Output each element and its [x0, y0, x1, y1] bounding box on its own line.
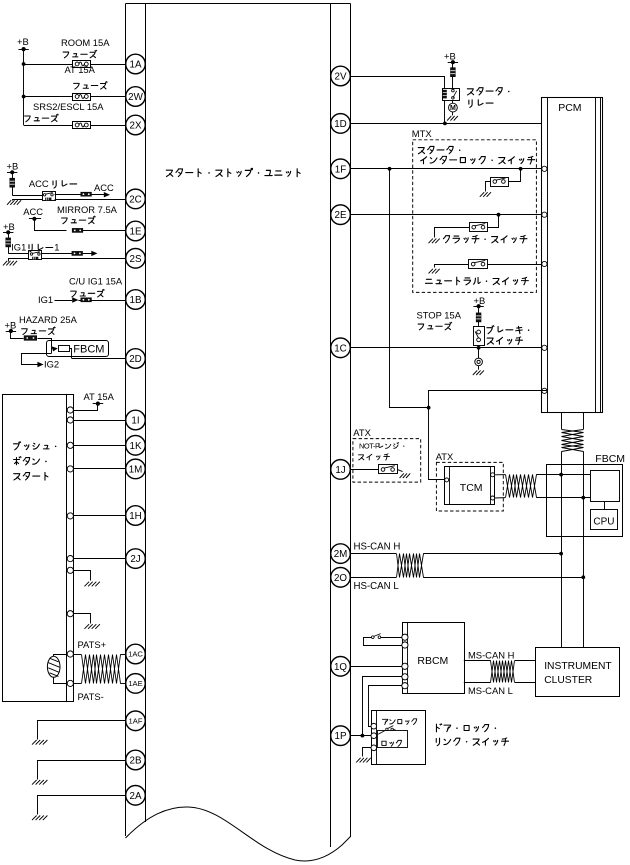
svg-text:SRS2/ESCL 15A: SRS2/ESCL 15A — [33, 101, 104, 112]
svg-text:1M: 1M — [129, 464, 143, 475]
terminal RBCM t1 — [402, 634, 408, 640]
pin 1I — [126, 410, 146, 430]
wire junction to clutch switch — [488, 215, 499, 228]
svg-text:HS-CAN H: HS-CAN H — [354, 541, 401, 552]
terminal PBS t7 — [67, 567, 73, 573]
terminal PBS t6 — [67, 556, 73, 562]
power +B node (ACC relay) — [7, 161, 19, 175]
svg-text:1AC: 1AC — [128, 650, 143, 659]
fuse SRS2/ESCL 15A — [25, 101, 105, 129]
pin PCM neutral — [542, 261, 547, 266]
power +B node (hazard) — [5, 314, 78, 335]
pin 1M — [126, 459, 146, 479]
coil (FBCM relay) — [59, 346, 70, 352]
wire 1F to PCM — [351, 167, 542, 171]
group MTX (dashed) — [412, 128, 537, 292]
wire +B link to relay — [12, 195, 42, 197]
fusible link (starter) — [451, 62, 456, 88]
svg-text:STOP 15A: STOP 15A — [417, 309, 462, 320]
ground (IG1 relay) — [3, 261, 17, 266]
pin 1F — [331, 159, 351, 179]
fuse STOP 15A (link) — [476, 306, 481, 326]
lamp stop (to stop lamps) — [475, 348, 483, 370]
module CPU box — [591, 510, 618, 530]
motor M (starter) — [449, 100, 458, 115]
module FBCM (driver) — [47, 341, 109, 357]
svg-text:1K: 1K — [130, 441, 142, 452]
wire PBS to 1H — [74, 515, 126, 517]
label starter relay — [467, 88, 509, 108]
wire +B to fuse SRS2 to 2X — [24, 125, 126, 127]
svg-text:IG1: IG1 — [38, 294, 53, 305]
svg-text:1Q: 1Q — [334, 662, 347, 673]
relay IG1-1 (K2) — [11, 241, 59, 259]
ground (door switch) — [356, 758, 371, 763]
relay starter (box) — [443, 89, 460, 101]
svg-text:1B: 1B — [130, 295, 142, 306]
wire 1C to PCM — [351, 346, 542, 350]
pin 2E — [331, 205, 351, 225]
wire 2M HS-CAN H — [351, 541, 563, 555]
terminal RBCM t4 — [402, 674, 408, 680]
fuse MIRROR 7.5A — [57, 204, 118, 233]
svg-text:+B: +B — [474, 295, 486, 306]
pin 1B — [126, 290, 146, 310]
power +B node (starter relay) — [444, 51, 458, 65]
power AT 15A node — [84, 391, 115, 406]
svg-text:1J: 1J — [335, 465, 345, 476]
terminal PBS t4 — [67, 466, 73, 472]
switch brake — [474, 327, 485, 346]
wire door t3 to ground — [363, 748, 372, 757]
pin 1K — [126, 436, 146, 456]
wire twisted pair PATS to 1AC/1AE — [74, 655, 126, 684]
terminal door t1 — [371, 723, 377, 729]
wire neutral switch to ground — [435, 265, 469, 268]
label neutral switch — [425, 277, 528, 285]
svg-text:2C: 2C — [129, 194, 142, 205]
wire transceiver to CPU — [604, 501, 606, 509]
ground (1AF) — [32, 740, 47, 745]
fuse AT 15A — [65, 64, 108, 101]
wire HS-CAN vertical pair PCM to cluster — [562, 413, 584, 648]
start-stop unit U1 box — [126, 4, 351, 862]
wire PBS to 1K — [74, 445, 126, 447]
pin PCM TCM-line — [542, 388, 547, 393]
pin 1AE — [126, 674, 146, 694]
svg-text:2A: 2A — [130, 791, 142, 802]
contact box lock — [378, 731, 408, 748]
svg-text:2X: 2X — [130, 121, 142, 132]
group ATX NOT-P (dashed) — [353, 427, 421, 482]
label door lock link switch — [436, 724, 508, 746]
terminal door t2 — [371, 733, 377, 739]
wire IG1 relay coil to ground — [9, 259, 29, 262]
terminal RBCM t2 — [402, 642, 408, 648]
ground (2A) — [32, 816, 47, 821]
group ATX TCM (dashed) — [436, 451, 504, 511]
FBCM transceiver box — [591, 471, 620, 502]
wire neutral switch to PCM — [488, 264, 542, 266]
pin PCM 2E — [542, 212, 547, 217]
svg-text:+B: +B — [5, 320, 17, 331]
svg-text:INSTRUMENT: INSTRUMENT — [544, 661, 612, 672]
svg-text:MS-CAN H: MS-CAN H — [468, 649, 514, 660]
module PCM box — [542, 97, 603, 412]
svg-text:RBCM: RBCM — [417, 655, 448, 667]
svg-text:2D: 2D — [129, 354, 142, 365]
terminal RBCM t3 — [402, 663, 408, 669]
pin 1H — [126, 506, 146, 526]
ground (neutral) — [429, 269, 440, 274]
ground (starter motor) — [447, 116, 458, 121]
terminal PBS PATS+ — [67, 639, 106, 657]
connector (ACC out) — [81, 192, 92, 196]
svg-text:1: 1 — [54, 241, 59, 252]
label unlock — [382, 719, 416, 725]
switch NOT-P range — [379, 465, 398, 474]
pin 2C — [126, 189, 146, 209]
pin 2D — [126, 349, 146, 369]
label start-stop unit — [166, 168, 300, 176]
svg-text:1H: 1H — [129, 511, 142, 522]
svg-text:HS-CAN L: HS-CAN L — [354, 581, 400, 592]
pin 2W — [126, 87, 146, 107]
switch neutral — [469, 260, 488, 269]
wire +B to hazard fuse — [11, 332, 24, 339]
svg-text:ACC: ACC — [23, 206, 43, 217]
pin 2M — [331, 544, 351, 564]
pin 1E — [126, 221, 146, 241]
wire PBS to 1I — [74, 420, 126, 422]
connector (IG1 out) — [72, 251, 83, 255]
svg-text:FBCM: FBCM — [73, 344, 104, 356]
svg-text:ACC: ACC — [29, 178, 49, 189]
label STOP 15A fuse — [417, 309, 462, 330]
svg-text:ATX: ATX — [436, 451, 454, 462]
svg-text:+B: +B — [3, 221, 15, 232]
svg-text:CLUSTER: CLUSTER — [544, 675, 592, 686]
svg-text:2J: 2J — [130, 554, 140, 565]
svg-text:TCM: TCM — [460, 482, 483, 494]
wire hazard fuse into FBCM — [38, 339, 52, 345]
fusible link (IG1 relay feed) — [6, 232, 11, 253]
svg-text:1P: 1P — [335, 731, 347, 742]
switch door lock/unlock — [378, 726, 396, 735]
label NOT-P range switch — [359, 441, 405, 460]
label brake switch — [487, 326, 529, 345]
svg-text:PCM: PCM — [558, 102, 581, 114]
wire RBCM t4 to door lock — [361, 677, 403, 738]
wire RBCM t5 to door unlock — [369, 686, 403, 727]
label starter interlock switch — [418, 146, 534, 164]
coil PATS antenna — [47, 655, 67, 684]
terminal RBCM t5 — [402, 683, 408, 689]
ground (clutch) — [429, 239, 440, 244]
svg-text:MTX: MTX — [412, 128, 433, 139]
pin 2S — [126, 248, 146, 268]
module TCM box — [445, 467, 495, 505]
terminal PBS t5 — [67, 513, 73, 519]
pin PCM 1F — [542, 166, 547, 171]
pin 2O — [331, 568, 351, 588]
wire relay coil to 2C — [55, 199, 126, 201]
svg-text:2W: 2W — [128, 92, 143, 103]
wire TCM CAN twisted pair to FBCM — [495, 473, 591, 500]
wire AT feed into PBS — [74, 404, 98, 411]
svg-text:MS-CAN L: MS-CAN L — [468, 685, 513, 696]
wire PBS to 2J — [74, 558, 126, 560]
fuse HAZARD 25A — [24, 336, 37, 341]
ground (2B) — [32, 780, 47, 785]
pin PCM 1C — [542, 345, 547, 350]
pin 2V — [331, 66, 351, 86]
svg-text:ATX: ATX — [353, 427, 371, 438]
svg-text:AT 15A: AT 15A — [84, 391, 115, 402]
wire PCM to TCM + 1F branch — [390, 169, 548, 480]
pin 1D — [331, 114, 351, 134]
svg-text:ACC: ACC — [94, 182, 114, 193]
terminal door t3 — [371, 745, 377, 751]
wire FBCM out to 2D — [70, 349, 127, 359]
power +B node (IG1 relay) — [3, 221, 15, 234]
pin 1AC — [126, 644, 146, 664]
pin 2A — [126, 786, 146, 806]
switch clutch — [470, 223, 488, 232]
wire junction to interlock switch — [509, 169, 521, 182]
pin 2J — [126, 549, 146, 569]
wire relay to ACC arrow — [55, 182, 114, 197]
wire MS-CAN L — [464, 683, 536, 697]
wire MS-CAN H — [464, 649, 536, 660]
connector + fuse C/U IG1 15A — [69, 275, 123, 302]
transistor (FBCM output) — [51, 344, 58, 353]
pin TCM CAN-H — [491, 473, 495, 477]
svg-text:PATS+: PATS+ — [78, 639, 107, 650]
svg-text:2E: 2E — [335, 210, 347, 221]
wire interlock switch to ground — [486, 182, 491, 192]
svg-text:PATS-: PATS- — [78, 691, 104, 702]
relay ACC (K1) — [29, 178, 77, 201]
power +B node (stop fuse) — [473, 295, 485, 308]
pin 2B — [126, 750, 146, 770]
terminal PBS t3 — [67, 442, 73, 448]
svg-text:C/U IG1 15A: C/U IG1 15A — [69, 275, 123, 286]
wire clutch switch to ground — [435, 228, 470, 238]
svg-text:HAZARD 25A: HAZARD 25A — [19, 314, 78, 325]
wire 1J to NOT-P switch — [351, 469, 379, 471]
wire 2E to PCM — [351, 213, 542, 217]
fuse ROOM 15A — [61, 37, 110, 68]
wire IG1 relay coil to 2S — [42, 258, 127, 260]
wire PBS ground 1 — [74, 571, 91, 581]
wire PBS ground 2 — [74, 614, 91, 624]
svg-text:MIRROR 7.5A: MIRROR 7.5A — [57, 204, 118, 215]
svg-text:1AE: 1AE — [128, 679, 142, 688]
svg-text:AT 15A: AT 15A — [65, 64, 96, 75]
pin 2X — [126, 115, 146, 135]
module instrument cluster box — [536, 648, 620, 697]
svg-text:1AF: 1AF — [129, 717, 143, 726]
wire ACC to fuse MIRROR to 1E — [35, 219, 127, 231]
ground (stop lamp) — [473, 370, 484, 375]
wire +B to fuse ROOM to 1A — [22, 62, 126, 66]
wire PBS to 1M — [74, 468, 126, 470]
fusible link (ACC relay feed) — [10, 172, 15, 195]
power ACC node (mirror fuse) — [23, 206, 43, 221]
pin TCM in — [445, 478, 449, 482]
label clutch switch — [443, 235, 527, 242]
ground (NOT-P) — [400, 473, 411, 478]
svg-text:1F: 1F — [335, 164, 346, 175]
pin 1P — [331, 726, 351, 746]
svg-text:2M: 2M — [334, 549, 348, 560]
pin 1J — [331, 460, 351, 480]
ground (ACC relay) — [7, 200, 21, 205]
svg-text:2B: 2B — [130, 756, 142, 767]
switch starter interlock — [491, 178, 509, 187]
svg-text:M: M — [450, 105, 456, 112]
ground (PBS 2) — [85, 624, 100, 629]
svg-text:CPU: CPU — [593, 516, 614, 527]
twisted pair MS-CAN — [491, 661, 515, 683]
power +B node (top left) — [17, 36, 29, 125]
svg-text:1E: 1E — [130, 227, 142, 238]
wire 2O HS-CAN L — [351, 575, 585, 591]
module push-button start box — [3, 395, 74, 702]
wire relay coil to ground — [13, 200, 43, 201]
switch (RBCM loop) — [364, 634, 403, 646]
svg-text:ROOM 15A: ROOM 15A — [61, 37, 110, 48]
pin 1A — [126, 54, 146, 74]
module RBCM box — [403, 623, 465, 694]
wire link to IG1 relay — [8, 253, 29, 255]
module FBCM box — [547, 453, 626, 536]
wire 1D to PCM — [351, 123, 542, 125]
terminal PBS t2 — [67, 417, 73, 423]
terminal PBS t1 — [67, 407, 73, 413]
terminal PBS t8 — [67, 611, 73, 617]
wire 2A to ground — [38, 796, 127, 815]
wire FBCM to IG2 arrow — [22, 354, 60, 370]
svg-text:+B: +B — [7, 161, 19, 172]
svg-text:FBCM: FBCM — [595, 453, 625, 465]
svg-text:2V: 2V — [335, 72, 347, 83]
svg-text:2O: 2O — [334, 573, 347, 584]
svg-text:2S: 2S — [130, 254, 142, 265]
svg-text:1A: 1A — [130, 60, 142, 71]
pin 1AF — [126, 711, 146, 731]
svg-text:+B: +B — [17, 36, 29, 47]
pin 1Q — [331, 657, 351, 677]
wire 1P to door switch — [351, 735, 371, 737]
wire +B to fuse AT to 2W — [22, 95, 126, 99]
svg-text:1C: 1C — [334, 343, 347, 354]
wire 2V to starter relay coil — [351, 77, 447, 126]
module door-lock-link switch box — [372, 710, 426, 765]
wire IG1 relay to arrow — [42, 251, 98, 256]
svg-text:NOT-P: NOT-P — [359, 441, 380, 450]
pin 1C — [331, 338, 351, 358]
wire NOT-P switch to ground — [397, 469, 402, 471]
svg-text:IG2: IG2 — [44, 359, 59, 370]
svg-text:+B: +B — [444, 51, 456, 62]
twisted pair HS-CAN — [397, 554, 424, 578]
ground (interlock) — [480, 192, 491, 197]
wire IG1 feed to 1B — [38, 294, 126, 305]
svg-text:1I: 1I — [131, 416, 139, 427]
wire 2B to ground — [38, 761, 127, 780]
svg-text:IG1: IG1 — [11, 241, 26, 252]
terminal PBS PATS- — [67, 680, 104, 702]
pin TCM CAN-L — [491, 496, 495, 500]
wire 1AF to ground — [38, 721, 127, 740]
ground (PBS 1) — [85, 582, 100, 587]
label push button start — [14, 442, 57, 480]
wire 1Q to RBCM — [351, 666, 402, 668]
svg-text:1D: 1D — [334, 119, 347, 130]
